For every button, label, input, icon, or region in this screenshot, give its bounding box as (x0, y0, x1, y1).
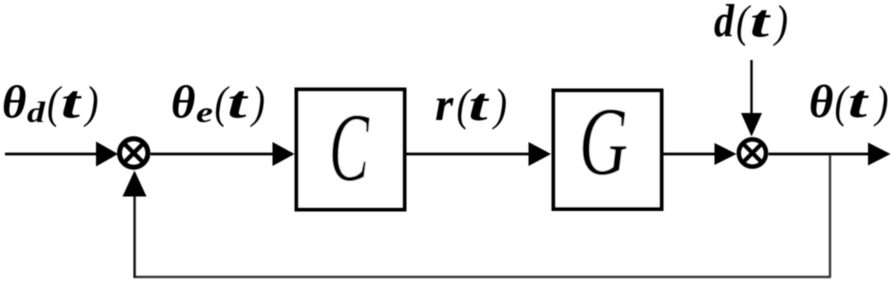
svg-text:t: t (848, 76, 870, 128)
svg-text:r: r (435, 79, 454, 131)
svg-text:): ) (772, 0, 788, 47)
svg-text:θ: θ (809, 76, 833, 128)
svg-text:): ) (491, 79, 507, 130)
svg-text:t: t (61, 77, 83, 129)
svg-text:C: C (329, 94, 370, 201)
svg-text:d: d (714, 0, 735, 48)
svg-text:G: G (579, 88, 628, 195)
svg-text:t: t (228, 77, 250, 129)
svg-text:d: d (27, 96, 46, 129)
svg-text:θ: θ (171, 77, 195, 129)
svg-text:t: t (469, 79, 491, 131)
svg-text:): ) (249, 77, 265, 128)
svg-text:t: t (750, 0, 772, 48)
svg-text:): ) (83, 77, 99, 128)
svg-text:(: ( (736, 0, 751, 47)
svg-text:θ: θ (2, 77, 26, 129)
svg-text:(: ( (47, 77, 62, 128)
svg-text:e: e (196, 96, 213, 129)
svg-text:): ) (873, 76, 889, 127)
